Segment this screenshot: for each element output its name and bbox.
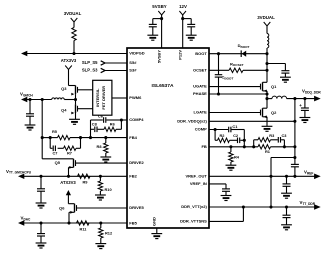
svg-text:VIDPGD: VIDPGD [129,51,144,56]
svg-text:3VDUAL: 3VDUAL [257,15,275,20]
svg-text:PHASE: PHASE [193,91,207,96]
svg-text:R3: R3 [269,133,275,138]
svg-text:SLP_S3: SLP_S3 [82,68,98,73]
svg-text:DRIVE5: DRIVE5 [129,205,144,210]
svg-text:R8: R8 [97,144,103,149]
svg-text:INTERSIL: INTERSIL [95,88,100,107]
svg-text:UGATE: UGATE [193,84,207,89]
svg-text:5VSBY: 5VSBY [152,4,166,9]
svg-text:VREF_IN: VREF_IN [190,181,207,186]
svg-text:DDR_VTTSNS: DDR_VTTSNS [180,219,207,224]
svg-text:FET DRIVER: FET DRIVER [101,86,106,110]
svg-text:FB5: FB5 [129,221,137,226]
svg-text:R6: R6 [110,122,116,127]
svg-text:ATX3V3: ATX3V3 [60,180,76,185]
svg-text:Q2: Q2 [271,110,277,115]
svg-text:R1: R1 [265,149,271,154]
svg-text:DDR_VTT(x2): DDR_VTT(x2) [181,204,207,209]
svg-text:R4: R4 [234,154,240,159]
svg-text:Q1: Q1 [271,84,277,89]
svg-text:DDR_VDDQ(x2): DDR_VDDQ(x2) [177,119,207,124]
svg-text:OCSET: OCSET [193,68,207,73]
svg-text:12V: 12V [179,4,187,9]
svg-text:Q4: Q4 [61,107,67,112]
svg-text:C1: C1 [232,124,238,129]
svg-text:VREF_OUT: VREF_OUT [185,174,207,179]
svg-text:C3: C3 [282,133,288,138]
svg-text:LGATE: LGATE [194,110,208,115]
svg-text:Q3: Q3 [61,86,67,91]
svg-text:ATX3V3: ATX3V3 [61,58,77,63]
svg-text:R5: R5 [52,129,58,134]
svg-text:FB: FB [201,144,206,149]
svg-text:FB4: FB4 [129,135,137,140]
svg-text:R7: R7 [67,150,72,155]
svg-text:Q5: Q5 [55,160,61,165]
svg-text:ISL6537A: ISL6537A [151,83,173,89]
svg-text:FB2: FB2 [129,174,137,179]
svg-text:GND: GND [152,217,157,226]
svg-text:C8: C8 [92,122,98,127]
svg-text:R2: R2 [220,133,226,138]
svg-text:PWM6: PWM6 [129,95,142,100]
svg-text:COMP4: COMP4 [129,117,144,122]
svg-text:3VDUAL: 3VDUAL [64,11,82,16]
svg-text:R11: R11 [80,226,88,231]
svg-text:S5#: S5# [129,60,137,65]
svg-text:SLP_S5: SLP_S5 [82,60,98,65]
svg-text:R12: R12 [105,231,113,236]
svg-text:BOOT: BOOT [195,51,207,56]
svg-text:COMP: COMP [195,127,207,132]
svg-text:C7: C7 [53,150,58,155]
svg-text:P12V: P12V [178,50,183,60]
svg-text:R9: R9 [83,179,89,184]
svg-text:5VSBY: 5VSBY [156,50,161,63]
svg-text:+: + [299,103,302,108]
svg-text:S3#: S3# [129,68,137,73]
svg-text:C2: C2 [233,133,239,138]
svg-text:C6: C6 [98,114,104,119]
svg-text:Q6: Q6 [59,206,65,211]
svg-text:R10: R10 [105,187,112,192]
svg-text:DRIVE2: DRIVE2 [129,160,144,165]
